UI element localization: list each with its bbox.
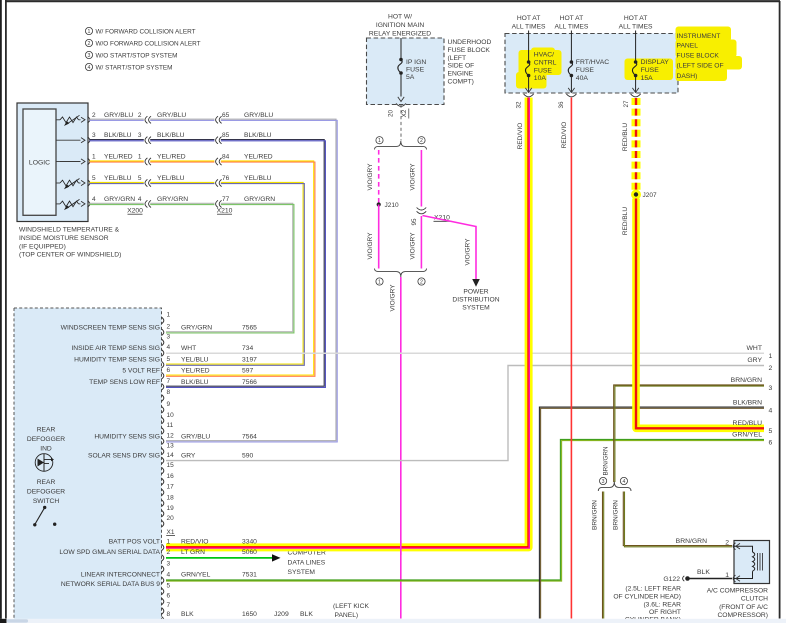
svg-text:(LEFT SIDE OF: (LEFT SIDE OF — [677, 63, 724, 70]
svg-text:IGNITION MAIN: IGNITION MAIN — [376, 22, 424, 29]
connector pin 3 — [162, 339, 164, 346]
wire WHT 734 sensor pin4 to right edge pin1 — [166, 352, 764, 354]
sensor internal lead row 4 — [56, 182, 60, 184]
svg-text:7564: 7564 — [242, 433, 257, 440]
svg-text:COMPRESSOR): COMPRESSOR) — [717, 612, 768, 619]
inline connector X210 contact — [216, 200, 218, 207]
arrow into connector — [81, 159, 85, 164]
window left edge — [0, 0, 2, 619]
svg-text:SYSTEM: SYSTEM — [288, 569, 316, 576]
option 2 marker — [418, 137, 425, 145]
svg-text:COMPT): COMPT) — [448, 79, 474, 86]
option merge bracket — [375, 269, 427, 278]
pin connector row 2 — [88, 137, 90, 144]
svg-text:YEL/BLU: YEL/BLU — [104, 175, 132, 182]
svg-text:FUSE: FUSE — [576, 67, 595, 74]
rear defogger indicator symbol — [35, 454, 53, 472]
svg-text:1650: 1650 — [242, 611, 257, 618]
svg-text:(LEFT KICK: (LEFT KICK — [333, 603, 369, 610]
svg-text:RELAY ENERGIZED: RELAY ENERGIZED — [369, 31, 431, 38]
svg-text:10A: 10A — [534, 75, 547, 82]
svg-text:BRN/GRN: BRN/GRN — [592, 500, 599, 530]
connector pin 12 — [162, 438, 164, 445]
wire LT GRN 5060 serial data with arrow — [166, 557, 272, 559]
wire GRN/YEL 7531 sensor pin4b to right edge pin6 — [166, 439, 764, 580]
svg-text:8: 8 — [167, 389, 171, 396]
svg-text:G122: G122 — [663, 576, 680, 583]
svg-text:1: 1 — [88, 29, 91, 35]
connector pin 20 — [162, 520, 164, 527]
svg-text:WHT: WHT — [747, 345, 762, 352]
connector pin 13 — [162, 448, 164, 455]
legend note 1 — [85, 27, 92, 35]
svg-text:W/O START/STOP SYSTEM: W/O START/STOP SYSTEM — [96, 52, 178, 59]
svg-text:5: 5 — [167, 583, 171, 590]
svg-text:BRN/GRN: BRN/GRN — [676, 538, 707, 545]
wire VIO/GRY option2 upper segment — [420, 150, 422, 269]
pin connector row 4 — [88, 180, 90, 187]
svg-text:11: 11 — [167, 422, 174, 429]
wire VIO/GRY option1 solid segment — [378, 205, 380, 269]
svg-text:ALL TIMES: ALL TIMES — [512, 24, 546, 31]
arrow into connector — [81, 138, 85, 143]
fuse block exit connectors — [524, 94, 534, 97]
svg-text:YEL/BLU: YEL/BLU — [157, 175, 185, 182]
svg-text:2: 2 — [420, 138, 423, 144]
svg-text:2: 2 — [92, 112, 96, 119]
svg-text:WINDSHIELD TEMPERATURE &: WINDSHIELD TEMPERATURE & — [19, 227, 120, 234]
svg-text:7565: 7565 — [242, 324, 257, 331]
connector pin 5 — [162, 361, 164, 368]
svg-text:4: 4 — [622, 479, 625, 485]
svg-text:W/ START/STOP SYSTEM: W/ START/STOP SYSTEM — [96, 64, 173, 71]
sensor internal lead row 3 — [56, 161, 60, 163]
connector X1 pin 3 — [162, 566, 164, 573]
svg-text:1: 1 — [167, 312, 171, 319]
svg-text:OF CYLINDER HEAD): OF CYLINDER HEAD) — [613, 593, 681, 600]
wire BRN/GRN right edge pin3 to option split — [614, 385, 764, 482]
connector pin 17 — [162, 489, 164, 496]
svg-text:1: 1 — [378, 138, 381, 144]
instrument panel fuse block box — [505, 34, 678, 94]
wire RED/BLU solid segment to right edge pin5 - highlighter band — [636, 199, 764, 429]
underhood fuse block box — [367, 38, 445, 105]
connector pin 11 — [162, 428, 164, 435]
svg-text:18: 18 — [167, 494, 175, 501]
svg-text:PANEL): PANEL) — [335, 612, 359, 619]
connector pin 15 — [162, 467, 164, 474]
arrow into connector — [81, 117, 85, 122]
svg-text:RED/VIO: RED/VIO — [561, 122, 568, 149]
splice J207 — [631, 190, 641, 200]
svg-text:IP IGN: IP IGN — [406, 59, 426, 66]
svg-text:YEL/BLU: YEL/BLU — [244, 175, 272, 182]
svg-text:7566: 7566 — [242, 379, 257, 386]
svg-text:HVAC/: HVAC/ — [534, 51, 554, 58]
splice J210 — [377, 202, 381, 206]
fuse FRT/HVAC 40A — [570, 31, 572, 63]
svg-text:HOT AT: HOT AT — [517, 15, 541, 22]
svg-text:VIO/GRY: VIO/GRY — [389, 284, 396, 312]
svg-text:3: 3 — [602, 479, 605, 485]
svg-text:14: 14 — [167, 452, 175, 459]
highlight over HVAC/CNTRL fuse — [519, 50, 562, 75]
svg-text:DATA LINES: DATA LINES — [288, 559, 326, 566]
svg-text:BLK/BLU: BLK/BLU — [157, 132, 185, 139]
wire BLK 1650 connector pin8b ground run — [166, 619, 545, 621]
svg-text:1: 1 — [167, 539, 171, 546]
svg-text:SWITCH: SWITCH — [33, 498, 60, 505]
wire VIO/GRY overpass — [400, 540, 402, 555]
svg-text:VIO/GRY: VIO/GRY — [367, 232, 374, 260]
svg-text:(LEFT: (LEFT — [448, 55, 467, 62]
svg-text:GRY/GRN: GRY/GRN — [157, 196, 188, 203]
svg-text:VIO/GRY: VIO/GRY — [464, 238, 471, 266]
connector pin 9 — [162, 407, 164, 414]
option 1 marker lower — [376, 278, 383, 286]
sensor internal lead row 2 — [56, 139, 60, 141]
svg-text:BLK/BLU: BLK/BLU — [104, 132, 132, 139]
wire BLK to ground G122 — [689, 578, 732, 580]
svg-text:INSIDE MOISTURE SENSOR: INSIDE MOISTURE SENSOR — [19, 235, 109, 242]
option 3 marker — [600, 477, 607, 485]
svg-text:597: 597 — [242, 368, 253, 375]
svg-text:95: 95 — [411, 218, 418, 226]
fuse IP IGN 5A — [400, 38, 402, 60]
highlight over INSTRUMENT PANEL FUSE BLOCK label — [676, 27, 732, 42]
svg-text:CNTRL: CNTRL — [534, 59, 557, 66]
svg-text:LINEAR INTERCONNECT: LINEAR INTERCONNECT — [81, 572, 160, 579]
svg-text:5060: 5060 — [242, 549, 257, 556]
inline connector X200 contact — [145, 200, 147, 207]
svg-text:(2.5L: LEFT REAR: (2.5L: LEFT REAR — [625, 585, 681, 592]
wire RED/VIO frt/hvac fuse 36 to bottom — [570, 98, 572, 619]
svg-text:FUSE: FUSE — [406, 66, 425, 73]
connector pin 1 — [162, 317, 164, 324]
svg-text:77: 77 — [222, 196, 230, 203]
svg-text:5: 5 — [92, 175, 96, 182]
fuse HVAC/CNTRL 10A — [528, 31, 530, 63]
svg-text:BRN/GRN: BRN/GRN — [602, 446, 609, 475]
svg-text:INSIDE AIR TEMP SENS SIG: INSIDE AIR TEMP SENS SIG — [71, 345, 160, 352]
wire BRN/GRN option3 branch to bottom — [602, 492, 604, 619]
svg-text:CLUTCH: CLUTCH — [741, 596, 768, 603]
svg-text:TEMP SENS LOW REF: TEMP SENS LOW REF — [89, 379, 160, 386]
wire GRY/BLU sensor to connector — [90, 119, 337, 441]
inline connector X210 on option2 wire — [416, 207, 427, 217]
pin connector row 3 — [88, 158, 90, 165]
body harness connector box — [14, 308, 162, 623]
arrow into connector — [81, 201, 85, 206]
svg-text:DEFOGGER: DEFOGGER — [27, 436, 65, 443]
svg-text:40A: 40A — [576, 75, 589, 82]
wire VIO/GRY option1 dashed segment — [378, 150, 380, 205]
svg-text:5: 5 — [138, 175, 142, 182]
svg-text:IND: IND — [40, 446, 52, 453]
svg-text:YEL/RED: YEL/RED — [104, 154, 133, 161]
inline connector X210 contact — [216, 137, 218, 144]
wire VIO/GRY main run to bottom — [400, 277, 402, 619]
svg-text:76: 76 — [222, 175, 230, 182]
svg-text:YEL/RED: YEL/RED — [157, 154, 186, 161]
svg-text:6: 6 — [167, 593, 171, 600]
option 2 marker lower — [418, 278, 425, 286]
svg-text:BRN/GRN: BRN/GRN — [731, 377, 762, 384]
inline connector X210 contact — [216, 179, 218, 186]
svg-text:VIO/GRY: VIO/GRY — [410, 163, 417, 191]
svg-text:FUSE BLOCK: FUSE BLOCK — [448, 47, 491, 54]
svg-text:32: 32 — [515, 101, 522, 109]
svg-text:BLK/BLU: BLK/BLU — [181, 379, 209, 386]
svg-text:4: 4 — [167, 572, 171, 579]
svg-text:FUSE: FUSE — [641, 67, 660, 74]
svg-text:POWER: POWER — [463, 289, 488, 296]
svg-text:VIO/GRY: VIO/GRY — [367, 163, 374, 191]
svg-text:3340: 3340 — [242, 539, 257, 546]
svg-text:X210: X210 — [217, 208, 233, 215]
svg-text:2: 2 — [167, 324, 171, 331]
svg-text:1: 1 — [138, 154, 142, 161]
svg-text:GRY/BLU: GRY/BLU — [157, 112, 186, 119]
wire YEL/BLU sensor to connector — [90, 182, 304, 364]
svg-text:9: 9 — [167, 401, 171, 408]
svg-text:4: 4 — [769, 407, 773, 414]
svg-text:BLK: BLK — [697, 569, 710, 576]
connector pin 8 — [162, 395, 164, 402]
svg-text:SIDE OF: SIDE OF — [448, 63, 475, 70]
connector X1 pin 8 — [162, 617, 164, 623]
svg-text:ENGINE: ENGINE — [448, 71, 474, 78]
connector pin 18 — [162, 500, 164, 507]
inline connector X200 contact — [145, 116, 147, 123]
svg-text:HOT W/: HOT W/ — [388, 14, 412, 21]
svg-text:OF RIGHT: OF RIGHT — [649, 609, 681, 616]
bottom scrollbar — [0, 619, 786, 623]
svg-text:4: 4 — [167, 344, 171, 351]
svg-text:7: 7 — [167, 378, 171, 385]
svg-text:GRY/GRN: GRY/GRN — [181, 324, 212, 331]
wire GRY/GRN sensor to connector — [90, 203, 293, 331]
svg-text:FRT/HVAC: FRT/HVAC — [576, 59, 609, 66]
svg-text:85: 85 — [222, 132, 230, 139]
svg-text:REAR: REAR — [37, 427, 56, 434]
svg-text:8: 8 — [167, 611, 171, 618]
svg-text:HUMIDITY SENS SIG: HUMIDITY SENS SIG — [94, 433, 160, 440]
fuse DISPLAY 15A — [635, 31, 637, 63]
svg-text:WHT: WHT — [181, 345, 196, 352]
svg-text:16: 16 — [167, 473, 175, 480]
svg-text:J210: J210 — [385, 202, 399, 209]
a/c compressor clutch box — [734, 541, 770, 584]
svg-text:19: 19 — [167, 505, 175, 512]
connector pin 16 — [162, 478, 164, 485]
svg-text:GRN/YEL: GRN/YEL — [181, 572, 211, 579]
svg-text:4: 4 — [138, 196, 142, 203]
svg-text:ALL TIMES: ALL TIMES — [554, 24, 588, 31]
svg-text:BLK: BLK — [300, 611, 313, 618]
svg-text:27: 27 — [623, 100, 630, 108]
wire RED/VIO 3340 violet conductor — [166, 98, 529, 549]
connector X1 pin 5 — [162, 588, 164, 595]
svg-text:2: 2 — [138, 112, 142, 119]
svg-text:GRY/BLU: GRY/BLU — [244, 112, 273, 119]
svg-text:BLK/BLU: BLK/BLU — [244, 132, 272, 139]
svg-text:590: 590 — [242, 453, 253, 460]
connector pin 14 — [162, 457, 164, 464]
svg-text:INSTRUMENT: INSTRUMENT — [677, 33, 721, 40]
inline connector X200 contact — [145, 137, 147, 144]
connector pin 19 — [162, 510, 164, 517]
wire RED/BLU display fuse dashed segment - highlighter band — [632, 98, 641, 191]
svg-text:DISPLAY: DISPLAY — [641, 59, 670, 66]
svg-text:6: 6 — [769, 440, 773, 447]
wire BRN/GRN option4 branch to A/C clutch — [623, 492, 732, 546]
wire VIO/GRY branch to power distribution — [423, 216, 477, 280]
option split bracket BRN/GRN — [598, 482, 631, 492]
svg-text:13: 13 — [167, 443, 175, 450]
svg-text:2: 2 — [420, 279, 423, 285]
svg-text:3: 3 — [138, 132, 142, 139]
svg-text:X200: X200 — [127, 208, 143, 215]
svg-text:36: 36 — [558, 101, 565, 109]
wire RED/BLU dashed red conductor — [635, 98, 637, 191]
svg-text:1: 1 — [378, 279, 381, 285]
svg-text:(TOP CENTER OF WINDSHIELD): (TOP CENTER OF WINDSHIELD) — [19, 252, 121, 259]
pin connector row 5 — [88, 201, 90, 208]
svg-text:734: 734 — [242, 345, 253, 352]
svg-text:(3.6L: REAR: (3.6L: REAR — [643, 601, 681, 608]
connector X1 pin 7 — [162, 608, 164, 615]
svg-text:X2: X2 — [401, 109, 408, 117]
svg-text:5 VOLT REF: 5 VOLT REF — [122, 368, 160, 375]
svg-text:BLK/BRN: BLK/BRN — [733, 399, 762, 406]
logic module U1 — [23, 109, 56, 215]
svg-text:J207: J207 — [643, 192, 657, 199]
svg-text:HOT AT: HOT AT — [560, 15, 584, 22]
connector X1 pin 4 — [162, 577, 164, 584]
clutch coil L1 — [734, 546, 753, 552]
legend note 4 — [85, 63, 92, 71]
connector pin 7 — [162, 384, 164, 391]
svg-text:20: 20 — [387, 110, 394, 118]
svg-text:WINDSCREEN TEMP SENS SIG: WINDSCREEN TEMP SENS SIG — [61, 324, 160, 331]
svg-text:FUSE BLOCK: FUSE BLOCK — [677, 53, 720, 60]
svg-text:VIO/GRY: VIO/GRY — [410, 232, 417, 260]
svg-text:GRY: GRY — [181, 453, 196, 460]
svg-text:RED/VIO: RED/VIO — [517, 123, 524, 150]
svg-text:HOT AT: HOT AT — [624, 15, 648, 22]
svg-text:5: 5 — [167, 356, 171, 363]
svg-text:7: 7 — [167, 602, 171, 609]
legend note 2 — [85, 39, 92, 47]
option 1 marker — [376, 137, 383, 145]
connector X1 pin 1 — [162, 544, 164, 551]
connector pin 10 — [162, 417, 164, 424]
wire YEL/RED sensor to connector — [90, 161, 314, 375]
svg-text:RED/BLU: RED/BLU — [733, 420, 763, 427]
svg-text:5: 5 — [769, 428, 773, 435]
sensor internal lead row 5 — [56, 203, 60, 205]
wire BLK/BLU sensor to connector — [90, 140, 325, 387]
svg-text:GRY/BLU: GRY/BLU — [181, 433, 210, 440]
rear defogger switch symbol — [43, 506, 46, 509]
svg-text:15: 15 — [167, 462, 175, 469]
svg-text:3: 3 — [769, 385, 773, 392]
wire dashed lead below underhood fuse block — [400, 105, 402, 141]
svg-text:YEL/RED: YEL/RED — [181, 368, 210, 375]
svg-text:W/O FORWARD COLLISION ALERT: W/O FORWARD COLLISION ALERT — [96, 40, 201, 47]
thermistor RT5 — [60, 201, 79, 207]
svg-text:2: 2 — [725, 540, 729, 547]
fuse block exit connector — [396, 103, 406, 106]
wire RED/BLU red conductor — [636, 199, 764, 429]
arrow to power distribution system — [472, 279, 480, 287]
connector X1 pin 2 — [162, 555, 164, 562]
svg-text:RED/VIO: RED/VIO — [181, 539, 209, 546]
svg-text:1: 1 — [769, 353, 773, 360]
svg-text:84: 84 — [222, 154, 230, 161]
svg-text:LOW SPD GMLAN SERIAL DATA: LOW SPD GMLAN SERIAL DATA — [59, 549, 160, 556]
svg-text:4: 4 — [88, 65, 91, 71]
windshield temperature and inside moisture sensor box — [17, 103, 88, 222]
svg-text:NETWORK SERIAL DATA BUS 9: NETWORK SERIAL DATA BUS 9 — [61, 581, 160, 588]
svg-text:5A: 5A — [406, 74, 415, 81]
svg-text:ALL TIMES: ALL TIMES — [619, 24, 653, 31]
wire RED/VIO 3340 hvac cntrl fuse to batt pos volt - highlighter band — [166, 98, 529, 548]
clutch pin 1 — [733, 575, 735, 582]
svg-text:A/C COMPRESSOR: A/C COMPRESSOR — [707, 587, 768, 594]
svg-text:3: 3 — [88, 53, 91, 59]
svg-text:HUMIDITY TEMP SENS SIG: HUMIDITY TEMP SENS SIG — [74, 357, 160, 364]
svg-text:J209: J209 — [274, 611, 289, 618]
svg-text:DEFOGGER: DEFOGGER — [27, 489, 65, 496]
svg-text:DISTRIBUTION: DISTRIBUTION — [452, 297, 499, 304]
svg-text:BLK: BLK — [181, 611, 194, 618]
svg-text:4: 4 — [92, 196, 96, 203]
inline connector X210 contact — [216, 116, 218, 123]
svg-text:SYSTEM: SYSTEM — [462, 305, 490, 312]
svg-text:(FRONT OF A/C: (FRONT OF A/C — [719, 604, 768, 611]
svg-text:W/ FORWARD COLLISION ALERT: W/ FORWARD COLLISION ALERT — [96, 28, 196, 35]
sensor internal lead row 1 — [56, 119, 60, 121]
svg-text:LOGIC: LOGIC — [29, 159, 50, 166]
pin connector row 1 — [88, 117, 90, 124]
inline connector X200 contact — [145, 158, 147, 165]
svg-text:BATT POS VOLT: BATT POS VOLT — [109, 539, 160, 546]
svg-text:RED/BLU: RED/BLU — [622, 207, 629, 235]
connector X1 pin 6 — [162, 598, 164, 605]
svg-text:GRY: GRY — [747, 357, 762, 364]
svg-text:FUSE: FUSE — [534, 67, 553, 74]
thermistor RT1 — [60, 117, 79, 123]
svg-text:12: 12 — [167, 433, 175, 440]
svg-text:6: 6 — [167, 367, 171, 374]
svg-text:3: 3 — [167, 560, 171, 567]
svg-text:20: 20 — [167, 515, 175, 522]
svg-text:YEL/RED: YEL/RED — [244, 154, 273, 161]
inline connector X200 contact — [145, 179, 147, 186]
svg-text:PANEL: PANEL — [677, 43, 699, 50]
svg-text:65: 65 — [222, 112, 230, 119]
svg-text:GRY/GRN: GRY/GRN — [244, 196, 275, 203]
arrow into connector — [81, 180, 85, 185]
svg-text:X1: X1 — [167, 529, 175, 536]
svg-text:REAR: REAR — [37, 479, 56, 486]
connector pin 4 — [162, 350, 164, 357]
svg-text:LT GRN: LT GRN — [181, 549, 205, 556]
wire BLK/BRN right edge pin4 down to ground run — [539, 407, 764, 618]
wire RED/VIO 3340 red conductor — [166, 98, 528, 547]
